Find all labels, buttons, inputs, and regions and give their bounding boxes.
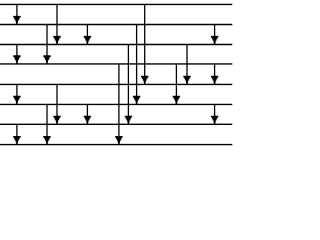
arrowhead onto L3 at x87.4 bbox=[84, 36, 91, 45]
arrowhead onto L2 at x16.9 bbox=[13, 16, 20, 25]
wire arrow stem L5 to L6 at x16.9 bbox=[16, 84, 18, 104]
arrowhead onto L4 at x16.9 bbox=[13, 55, 20, 64]
wire arrow stem L4 to L6 at x176.4 bbox=[175, 64, 177, 105]
arrowhead onto L6 at x136.6 bbox=[133, 96, 140, 105]
wire line L5 bbox=[0, 83, 232, 85]
wire line L7 bbox=[0, 123, 232, 125]
arrowhead onto L6 at x176.4 bbox=[173, 96, 180, 105]
wire line L4 bbox=[0, 63, 232, 65]
wire line L6 bbox=[0, 103, 232, 105]
wire arrow stem L7 to L8 at x16.9 bbox=[16, 124, 18, 144]
wire arrow stem L2 to L4 at x47 bbox=[46, 25, 48, 64]
arrowhead onto L3 at x57 bbox=[53, 36, 60, 45]
arrowhead onto L3 at x214.6 bbox=[211, 36, 218, 45]
wire arrow stem L5 to L7 at x57 bbox=[56, 84, 58, 124]
wire arrow stem L1 to L5 at x144.7 bbox=[144, 4, 146, 84]
wire arrow stem L4 to L8 at x118.9 bbox=[118, 64, 120, 145]
wire arrow stem L2 to L3 at x214.6 bbox=[214, 25, 216, 45]
wire arrow stem L6 to L7 at x214.6 bbox=[214, 104, 216, 124]
wire arrow stem L3 to L7 at x128.4 bbox=[127, 45, 129, 125]
arrowhead onto L6 at x16.9 bbox=[13, 96, 20, 105]
arrowhead onto L5 at x144.7 bbox=[141, 76, 148, 85]
wire arrow stem L2 to L6 at x136.6 bbox=[136, 25, 138, 105]
wire arrow stem L1 to L2 at x16.9 bbox=[16, 4, 18, 24]
wire line L8 bbox=[0, 144, 232, 146]
wire line L2 bbox=[0, 24, 232, 26]
wire arrow stem L6 to L8 at x47 bbox=[46, 104, 48, 144]
wire arrow stem L3 to L5 at x187.0 bbox=[186, 45, 188, 85]
wire arrow stem L6 to L7 at x87.4 bbox=[86, 104, 88, 124]
arrowhead onto L7 at x87.4 bbox=[84, 116, 91, 125]
arrowhead onto L8 at x118.9 bbox=[115, 136, 122, 145]
arrowhead onto L8 at x16.9 bbox=[13, 136, 20, 145]
wire arrow stem L3 to L4 at x16.9 bbox=[16, 45, 18, 64]
wire arrow stem L2 to L3 at x87.4 bbox=[86, 25, 88, 45]
arrowhead onto L8 at x47 bbox=[43, 136, 50, 145]
arrowhead onto L7 at x214.6 bbox=[211, 116, 218, 125]
wire line L1 bbox=[0, 3, 232, 5]
wire arrow stem L1 to L3 at x57 bbox=[56, 4, 58, 44]
arrowhead onto L5 at x187.0 bbox=[183, 76, 190, 85]
arrowhead onto L5 at x214.6 bbox=[211, 76, 218, 85]
wire line L3 bbox=[0, 44, 232, 46]
arrowhead onto L4 at x47 bbox=[43, 55, 50, 64]
arrowhead onto L7 at x128.4 bbox=[125, 116, 132, 125]
arrowhead onto L7 at x57 bbox=[53, 116, 60, 125]
wire arrow stem L4 to L5 at x214.6 bbox=[214, 64, 216, 85]
